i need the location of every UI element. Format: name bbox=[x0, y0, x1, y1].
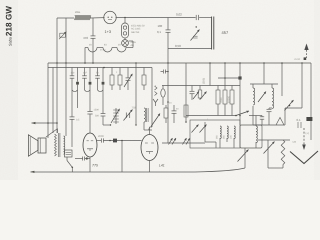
wire x122 down bbox=[121, 141, 123, 173]
capacitor C2 in line bbox=[157, 18, 171, 64]
capacitor C16 bbox=[267, 108, 273, 125]
heater choke L4 bbox=[103, 48, 112, 53]
antenna arrow bbox=[295, 44, 309, 62]
label 775 bbox=[92, 164, 98, 168]
electrolytic C18 bbox=[297, 117, 313, 122]
wire to V3 bbox=[103, 140, 141, 142]
wire V2 anode bbox=[97, 140, 101, 142]
wire x311 bbox=[310, 63, 312, 117]
label 550 rotated bbox=[203, 78, 206, 84]
wire x136 down bbox=[135, 63, 137, 125]
capacitor group C6c bbox=[95, 68, 104, 92]
arrow down to earth bbox=[302, 128, 306, 150]
earth chevron bbox=[290, 151, 318, 164]
wire x168 long bbox=[167, 63, 169, 143]
tick pair right bbox=[298, 122, 301, 128]
label 1+3 bbox=[105, 30, 111, 34]
wire y143 row bbox=[162, 142, 205, 144]
wire x245 down bbox=[244, 148, 246, 168]
wire x186 down bbox=[185, 63, 187, 123]
wire x57b down bbox=[56, 63, 58, 133]
coil L8 bbox=[272, 84, 274, 108]
wire x282 top bbox=[281, 62, 283, 96]
wire x268 down bbox=[267, 140, 269, 168]
wire feed bracket bbox=[263, 63, 265, 84]
wire bottom long bbox=[30, 168, 245, 173]
wire x66b down bbox=[65, 63, 67, 136]
wire x210 bbox=[209, 63, 211, 86]
capacitor C13 bbox=[98, 135, 104, 142]
label small right bbox=[293, 141, 297, 144]
arrow on x245 bbox=[238, 150, 249, 162]
switch contacts S2 bbox=[155, 86, 158, 96]
lamp E2 bbox=[122, 40, 129, 47]
resistor R5 bbox=[118, 68, 122, 91]
switch S1 bbox=[67, 157, 73, 172]
wire x93 down bbox=[92, 18, 94, 63]
capacitor C7 bbox=[70, 117, 80, 122]
capacitor C14 bbox=[169, 102, 177, 124]
rail y85 bbox=[162, 85, 240, 87]
coil Ld bbox=[256, 116, 257, 149]
bus wire main bbox=[48, 62, 311, 64]
resistor zigzag R14 bbox=[281, 140, 285, 168]
switch hump S4 bbox=[276, 118, 284, 126]
wire x302 bbox=[301, 63, 303, 108]
component small bbox=[198, 86, 202, 101]
comb electrode K1 bbox=[111, 108, 120, 124]
resistor R10 bbox=[216, 86, 220, 116]
pot P1 bbox=[59, 32, 66, 40]
tube V1 bbox=[104, 11, 116, 23]
capacitor block C11 bbox=[65, 150, 73, 157]
heater labels bbox=[89, 44, 121, 47]
wire x53 down bbox=[52, 68, 54, 134]
wire y125 bbox=[253, 124, 285, 126]
label block E2 bbox=[131, 41, 137, 47]
coil Lc bbox=[230, 126, 236, 148]
trimmer C17 bbox=[285, 100, 294, 111]
box BF1 bbox=[190, 120, 240, 148]
resistor R7 bbox=[142, 68, 146, 91]
heater choke L3 bbox=[88, 48, 97, 53]
transformer T1 winding a bbox=[55, 134, 57, 156]
wire x285 bbox=[284, 108, 286, 125]
wire top box lower bbox=[168, 44, 212, 48]
label block E1 bbox=[131, 25, 145, 34]
grid cap C8 bbox=[87, 90, 99, 133]
resistor R8 bbox=[164, 105, 168, 123]
electrolytic C4 bar bbox=[212, 17, 214, 50]
resistor R4 bbox=[110, 68, 114, 91]
label 703 bbox=[132, 107, 137, 110]
heater choke L5 bbox=[117, 48, 126, 53]
wire x311 low bbox=[310, 121, 312, 140]
label plus bbox=[306, 132, 309, 135]
wire heater drop bbox=[84, 48, 86, 64]
resistor R9 bbox=[184, 105, 188, 117]
coil L6 with core bbox=[144, 108, 148, 122]
blob component bbox=[113, 139, 117, 143]
arrow trimmers mid bbox=[193, 92, 207, 100]
labels rotated R10 R11 bbox=[220, 95, 230, 103]
volume pot R6 bbox=[124, 68, 132, 91]
transformer T1 core bbox=[58, 133, 60, 157]
speaker LS1 bbox=[28, 135, 46, 156]
wire top rail left bbox=[57, 17, 74, 19]
wire x72 low bbox=[71, 90, 73, 147]
arrow between coils bbox=[258, 92, 266, 103]
wire V3 top bbox=[150, 127, 153, 135]
resistor R12 bbox=[230, 86, 234, 116]
wire heater seg3 bbox=[112, 47, 117, 49]
capacitor C20 bbox=[260, 116, 264, 126]
wire x240 down bbox=[239, 63, 241, 125]
wire x48 down bbox=[47, 63, 49, 138]
capacitor C12 bbox=[75, 157, 90, 161]
switch pair Sa bbox=[169, 138, 177, 145]
switch S3 row bbox=[186, 111, 262, 117]
capacitor C1 bbox=[83, 36, 96, 40]
wire heater seg2 bbox=[97, 47, 103, 49]
wire heater right bbox=[126, 41, 133, 48]
arrow on x268 bbox=[264, 142, 275, 154]
bus wire second bbox=[48, 67, 152, 69]
wire coil to tube bbox=[91, 17, 105, 19]
wire lamp to heater line bbox=[124, 46, 126, 47]
wire x77 low bbox=[77, 90, 79, 108]
arrow in box a bbox=[192, 125, 199, 133]
wire V3 bottom bbox=[149, 161, 151, 173]
wire tube to C4 bbox=[116, 17, 168, 19]
junction x136 end bbox=[135, 124, 136, 125]
wire top y140 bbox=[258, 139, 290, 141]
capacitor C19 stub bbox=[161, 70, 169, 74]
misc labels bbox=[86, 49, 209, 122]
capacitor group C6a bbox=[70, 68, 79, 92]
arrow in box b bbox=[200, 125, 207, 133]
coil L7 bbox=[253, 84, 255, 125]
tube V2 bbox=[83, 133, 97, 157]
junction x125 top bbox=[124, 17, 126, 23]
label 457 bbox=[222, 30, 229, 35]
socket E1 bbox=[122, 23, 129, 38]
wire y123 with arrow bbox=[31, 122, 57, 124]
capacitor group C6b bbox=[82, 68, 91, 92]
bracket bbox=[250, 83, 278, 85]
wire x152 down bbox=[151, 68, 153, 128]
capacitor C9 bbox=[94, 90, 106, 125]
wire x103 elbow bbox=[103, 124, 111, 125]
capacitor C3 bbox=[176, 13, 199, 21]
wire top box upper bbox=[168, 17, 212, 19]
label CL4 bbox=[159, 164, 165, 168]
wire speaker diag bbox=[46, 129, 58, 137]
arrow A pointer bbox=[147, 114, 160, 132]
trimmer C10 bbox=[124, 110, 133, 121]
capacitor C15 bbox=[190, 86, 195, 101]
transformer T1 winding b bbox=[64, 136, 65, 154]
wire Y split bbox=[153, 99, 158, 106]
paper background bbox=[0, 0, 320, 180]
coil Lb bbox=[223, 126, 229, 142]
wire x66 down bbox=[65, 18, 67, 63]
wire y78 segment bbox=[218, 76, 242, 79]
switch pair Sb bbox=[183, 138, 191, 145]
tube V3 bbox=[141, 135, 158, 161]
resistor R11 bbox=[223, 63, 227, 116]
wire x205 elbow bbox=[205, 122, 216, 148]
wire x57 down bbox=[56, 18, 58, 63]
trimmer arrow C5 bbox=[191, 26, 200, 40]
wire V2 bottom bbox=[89, 157, 91, 172]
paper texture bbox=[0, 0, 320, 180]
coil L1 (hatched RF coil) bbox=[75, 11, 91, 20]
box BF2 bbox=[240, 125, 262, 148]
fuse F1 bbox=[161, 86, 165, 106]
bus junction dots bbox=[56, 62, 303, 68]
wire E1 to lamp bbox=[124, 38, 126, 40]
wire heater left bbox=[85, 47, 88, 49]
wire y108 bbox=[285, 107, 302, 109]
title Saba 218 GW (rotated) bbox=[5, 6, 14, 46]
wire L6 to V3 bbox=[144, 122, 152, 130]
wire bottom right bbox=[268, 167, 283, 169]
coil La bbox=[216, 126, 222, 148]
